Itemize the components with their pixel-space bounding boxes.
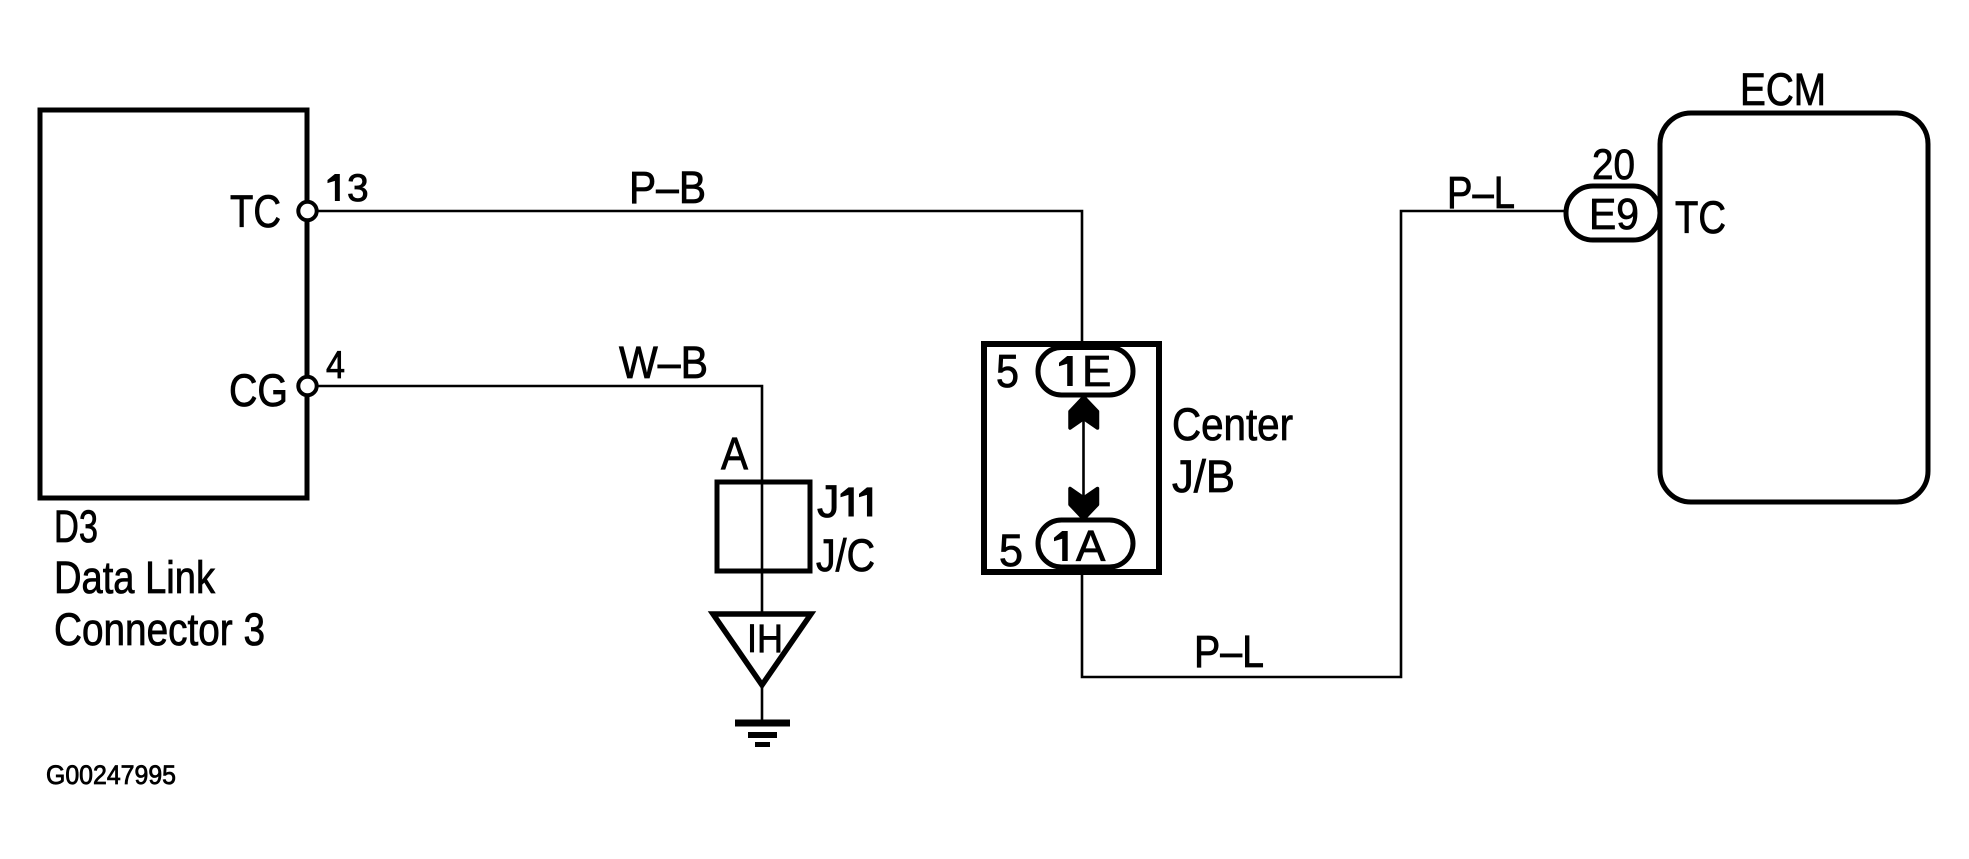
svg-text:IH: IH <box>747 617 783 661</box>
wire through junction J11 <box>761 482 764 614</box>
svg-text:E: E <box>1082 347 1111 396</box>
svg-text:ECM: ECM <box>1740 64 1826 115</box>
svg-text:A: A <box>1076 522 1106 571</box>
svg-text:20: 20 <box>1592 141 1635 189</box>
svg-text:P–L: P–L <box>1194 626 1264 677</box>
arrow up (to 1E) <box>1070 397 1098 428</box>
label 1E <box>1059 356 1073 386</box>
svg-text:A: A <box>721 428 748 479</box>
svg-text:TC: TC <box>230 186 281 237</box>
pin TC terminal circle <box>298 202 316 220</box>
svg-text:G00247995: G00247995 <box>46 760 176 790</box>
svg-text:W–B: W–B <box>619 337 708 388</box>
wire P-L from 1A to ECM <box>1082 211 1566 677</box>
arrow down (to 1A) <box>1070 489 1098 520</box>
svg-text:5: 5 <box>999 525 1023 576</box>
svg-text:Connector 3: Connector 3 <box>54 604 265 655</box>
wire W-B from CG pin to J11 <box>308 386 763 482</box>
pin CG terminal circle <box>298 377 316 395</box>
terminal oval E9 <box>1566 186 1660 240</box>
label 1A <box>1054 531 1068 561</box>
ground symbol bars <box>735 720 790 727</box>
connector D3 box <box>40 110 307 498</box>
svg-text:Data Link: Data Link <box>54 552 215 603</box>
Center J/B box <box>984 344 1159 572</box>
ECM box <box>1660 113 1928 502</box>
ground triangle IH <box>713 614 811 685</box>
svg-text:3: 3 <box>347 167 369 210</box>
terminal oval 1A <box>1038 520 1133 567</box>
svg-text:P–B: P–B <box>629 162 706 213</box>
svg-text:J: J <box>817 476 840 527</box>
svg-text:5: 5 <box>996 345 1019 397</box>
svg-text:E9: E9 <box>1589 190 1639 239</box>
pin number 13 <box>328 174 340 201</box>
svg-text:CG: CG <box>229 365 288 416</box>
svg-text:4: 4 <box>326 344 345 387</box>
svg-text:P–L: P–L <box>1447 167 1515 218</box>
svg-text:J/C: J/C <box>816 530 875 581</box>
wire P-B from TC pin to Center J/B <box>308 211 1083 344</box>
svg-text:Center: Center <box>1172 399 1293 450</box>
terminal oval 1E <box>1038 348 1133 396</box>
junction connector J11 square <box>717 482 810 571</box>
wire from triangle apex to ground <box>761 685 764 721</box>
svg-text:J/B: J/B <box>1172 451 1235 502</box>
wire inside Center J/B <box>1082 395 1085 520</box>
svg-text:TC: TC <box>1675 192 1726 243</box>
svg-text:D3: D3 <box>54 501 98 552</box>
